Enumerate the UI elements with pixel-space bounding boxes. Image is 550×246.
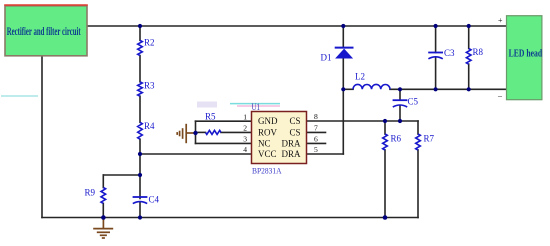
svg-text:R7: R7 <box>424 134 435 144</box>
svg-text:R6: R6 <box>391 134 402 144</box>
svg-text:R3: R3 <box>144 81 155 91</box>
svg-text:7: 7 <box>314 123 318 132</box>
svg-text:Rectifier and filter circuit: Rectifier and filter circuit <box>7 24 81 38</box>
svg-text:D1: D1 <box>321 53 332 63</box>
svg-text:–: – <box>497 92 503 101</box>
svg-text:C3: C3 <box>444 48 455 58</box>
svg-text:L2: L2 <box>355 72 365 82</box>
svg-text:R9: R9 <box>85 188 96 198</box>
svg-text:ROV: ROV <box>258 127 278 137</box>
svg-text:3: 3 <box>243 134 247 143</box>
svg-text:R2: R2 <box>144 38 155 48</box>
svg-text:LED head: LED head <box>509 49 543 60</box>
svg-text:4: 4 <box>243 145 247 154</box>
svg-text:R4: R4 <box>144 121 155 131</box>
svg-text:R5: R5 <box>205 112 216 122</box>
svg-text:CS: CS <box>289 127 300 137</box>
svg-text:DRA: DRA <box>281 138 301 148</box>
svg-text:2: 2 <box>243 124 247 133</box>
svg-text:CS: CS <box>289 116 300 126</box>
svg-text:5: 5 <box>314 145 318 154</box>
svg-text:8: 8 <box>314 112 318 121</box>
svg-text:U1: U1 <box>252 102 261 112</box>
svg-text:R8: R8 <box>473 47 484 57</box>
svg-text:VCC: VCC <box>258 149 277 159</box>
svg-text:DRA: DRA <box>281 149 301 159</box>
svg-text:BP2831A: BP2831A <box>252 165 282 175</box>
svg-text:C4: C4 <box>149 195 160 205</box>
svg-text:C5: C5 <box>408 97 419 107</box>
svg-text:NC: NC <box>258 138 271 148</box>
svg-text:+: + <box>498 16 503 25</box>
svg-text:6: 6 <box>314 134 318 143</box>
svg-text:GND: GND <box>258 116 278 126</box>
svg-text:1: 1 <box>243 112 247 121</box>
